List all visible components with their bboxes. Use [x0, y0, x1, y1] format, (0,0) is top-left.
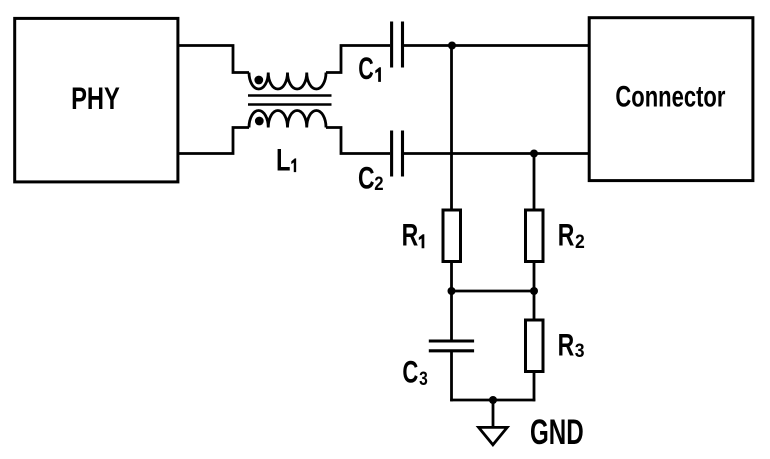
wire R1 bottom to mid junction: [450, 262, 453, 293]
R2 label: [558, 217, 585, 253]
svg-text:3: 3: [419, 367, 428, 389]
junction node bottom row: [530, 150, 538, 158]
wire C3 to bottom rail: [450, 351, 453, 402]
junction node ground: [489, 396, 497, 404]
svg-text:R: R: [558, 217, 575, 252]
R1 label: [402, 217, 425, 252]
capacitor C1: [392, 22, 403, 68]
wire C1 to Connector top: [404, 44, 589, 47]
R3 label: [558, 327, 585, 362]
wire PHY top to transformer primary: [178, 46, 249, 73]
C2 label: [358, 160, 384, 195]
wire transformer secondary to C2: [326, 128, 390, 154]
svg-text:C: C: [402, 353, 418, 389]
wire transformer primary to C1: [326, 46, 390, 73]
transformer core: [248, 96, 332, 105]
Connector label: [615, 79, 725, 113]
svg-text:R: R: [558, 327, 575, 362]
wire mid horizontal: [452, 290, 535, 293]
wire junction to R2: [533, 154, 536, 211]
transformer L1 primary winding: [249, 73, 326, 90]
svg-text:2: 2: [575, 231, 585, 253]
wire mid junction to C3: [450, 291, 453, 341]
C3 label: [402, 353, 428, 389]
capacitor C3: [429, 341, 474, 351]
Connector box: [589, 18, 753, 181]
secondary polarity dot: [255, 117, 264, 126]
svg-text:GND: GND: [530, 414, 584, 453]
svg-text:3: 3: [575, 340, 585, 362]
resistor R2: [526, 210, 544, 262]
ground: [479, 427, 508, 444]
wire mid junction to R3: [533, 291, 536, 320]
PHY box: [15, 18, 178, 182]
junction node top: [448, 42, 456, 50]
wire to ground: [492, 400, 495, 428]
svg-text:Connector: Connector: [615, 79, 725, 113]
wire C2 to Connector bottom: [404, 152, 589, 155]
wire R3 to bottom rail: [533, 372, 536, 402]
wire top junction down to R1: [450, 46, 453, 211]
resistor R1: [443, 210, 461, 262]
wire R2 bottom to mid junction: [533, 262, 536, 293]
transformer L1 secondary winding: [249, 111, 326, 128]
svg-text:C: C: [358, 51, 373, 86]
svg-text:R: R: [402, 217, 419, 252]
resistor R3: [526, 320, 544, 372]
junction node mid right: [530, 287, 538, 295]
L1 label: [276, 142, 296, 177]
wire bottom rail: [450, 399, 535, 402]
svg-text:2: 2: [374, 173, 383, 194]
svg-text:PHY: PHY: [71, 80, 120, 115]
GND label: [530, 414, 584, 453]
junction node mid left: [448, 287, 456, 295]
svg-text:L: L: [276, 142, 290, 177]
svg-text:C: C: [358, 160, 375, 195]
PHY label: [71, 80, 120, 115]
C1 label: [358, 51, 381, 86]
primary polarity dot: [254, 76, 263, 85]
wire PHY bottom to transformer secondary: [178, 128, 249, 154]
capacitor C2: [392, 131, 403, 177]
